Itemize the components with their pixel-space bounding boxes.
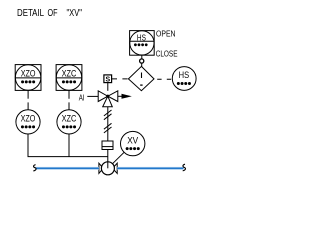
wire XZO circle down and junction run to valve stem <box>28 134 108 157</box>
svg-text:AI: AI <box>79 94 85 103</box>
wire XV bubble to valve body <box>112 152 124 164</box>
svg-text:OPEN: OPEN <box>156 28 176 38</box>
instrument bubble XZC (field circle) <box>57 110 81 134</box>
wire XZO square to XZO field circle (broken) <box>27 90 29 109</box>
svg-text:XZC: XZC <box>62 68 77 78</box>
svg-text:XV: XV <box>127 135 138 145</box>
instrument bubble XZO (shared display, square+circle) <box>15 65 41 91</box>
wire AI to valve inlet <box>87 95 98 97</box>
svg-text:OF: OF <box>48 8 58 19</box>
wire node to diamond apex <box>141 63 143 67</box>
3-way solenoid valve <box>98 91 118 107</box>
label CLOSE <box>156 48 178 58</box>
svg-text:XZO: XZO <box>21 68 36 78</box>
wire actuator box to valve XV stem <box>107 150 109 169</box>
process line left (blue) <box>36 167 99 170</box>
line break symbol left <box>33 165 36 171</box>
label OPEN <box>156 28 176 38</box>
label AI <box>79 94 85 103</box>
instrument bubble HS (shared display, square+circle) <box>130 31 155 56</box>
solenoid box S <box>104 75 112 83</box>
wire XZC square to XZC field circle (broken) <box>68 90 70 109</box>
dashed signal diamond to HS field circle <box>157 78 172 80</box>
svg-text:S: S <box>105 76 110 83</box>
wire XZC circle down to junction run <box>68 134 70 157</box>
wire S box to 3-way valve <box>107 83 109 91</box>
pneumatic signal line valve to actuator (with slashes) <box>104 107 112 141</box>
interlock diamond I <box>128 66 154 90</box>
svg-text:DETAIL: DETAIL <box>17 8 44 19</box>
svg-text:HS: HS <box>179 70 190 80</box>
process line right (blue) <box>117 167 183 170</box>
svg-text:HS: HS <box>137 33 146 42</box>
instrument bubble XZO (field circle) <box>16 110 40 134</box>
title DETAIL OF "XV" <box>17 8 82 19</box>
svg-text:CLOSE: CLOSE <box>156 48 178 58</box>
line break symbol right <box>183 164 186 171</box>
instrument bubble XV <box>121 131 145 155</box>
svg-text:XZO: XZO <box>21 114 36 124</box>
node junction circle <box>140 59 144 63</box>
valve XV body flanges <box>99 163 117 173</box>
actuator box <box>102 141 113 150</box>
dashed signal S box to diamond <box>112 78 128 80</box>
svg-text:XZC: XZC <box>62 114 77 124</box>
instrument bubble HS (field circle) <box>172 67 196 91</box>
vent arrow <box>118 94 132 99</box>
valve XV body (ball circle) <box>101 162 114 175</box>
instrument bubble XZC (shared display, square+circle) <box>56 65 82 91</box>
wire HS square to node <box>141 55 143 59</box>
svg-text:"XV": "XV" <box>67 8 83 19</box>
